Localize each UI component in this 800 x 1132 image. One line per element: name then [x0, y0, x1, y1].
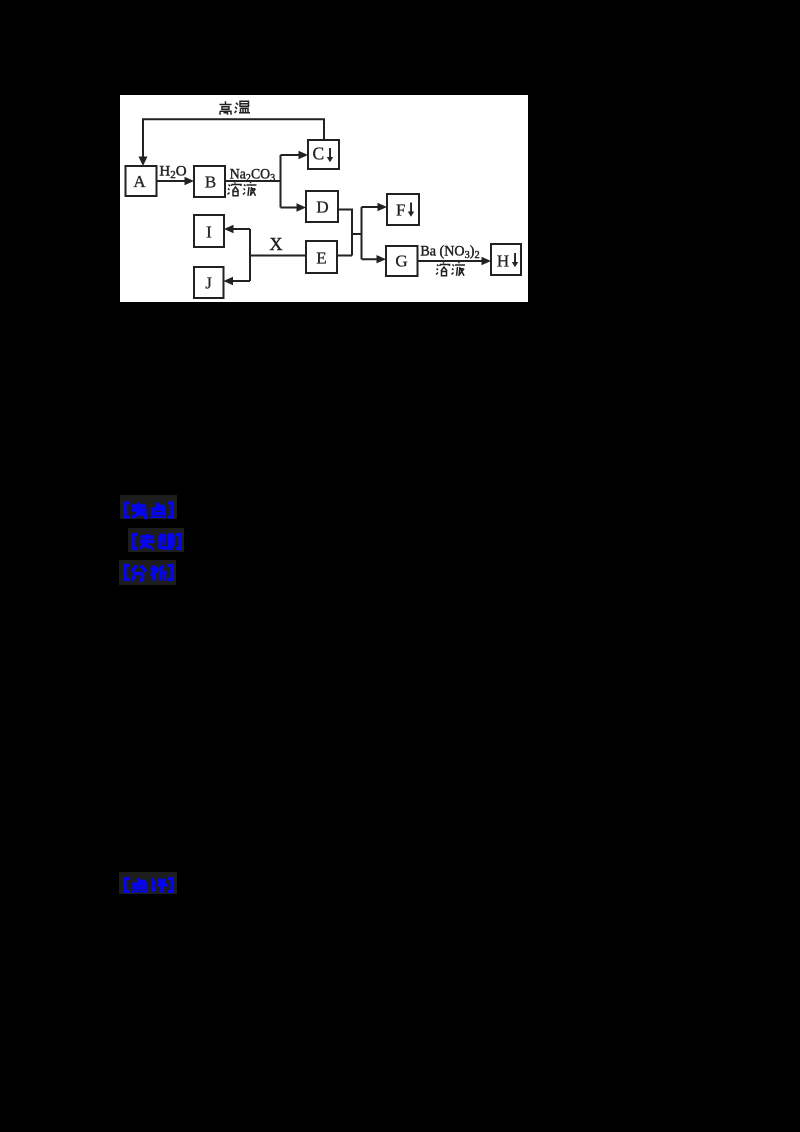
wire: branch to F — [362, 206, 381, 208]
wire: D right to bus2 — [338, 210, 352, 256]
svg-text:I: I — [206, 223, 212, 242]
char 题 — [159, 535, 174, 549]
bracket right — [168, 503, 172, 517]
svg-text:Ba (NO3)2: Ba (NO3)2 — [420, 243, 479, 261]
wire: A to B arrow shaft — [156, 180, 188, 182]
box I — [194, 215, 224, 247]
wire: G to H arrow shaft — [418, 260, 485, 262]
arrowhead into D (right) — [297, 203, 307, 211]
char 点 — [152, 503, 165, 519]
down arrow after C — [327, 148, 333, 162]
wire: bus4 vertical I/J split — [249, 229, 251, 281]
diagram: chemistry flowchart image — [120, 95, 528, 302]
char 点 — [133, 878, 146, 893]
bracket right — [176, 535, 180, 549]
down arrow after H — [512, 253, 518, 267]
box H — [491, 244, 521, 275]
arrowhead into H (right) — [482, 257, 492, 265]
bracket left — [125, 879, 129, 892]
bracket left — [125, 566, 129, 580]
svg-text:X: X — [270, 234, 283, 254]
arrowhead into C (right) — [299, 151, 309, 159]
svg-text:J: J — [205, 274, 212, 293]
box C — [308, 140, 339, 169]
label 溶液 under Ba(NO3)2 (hand-drawn) — [436, 262, 465, 276]
blue label 【考点】 — [120, 495, 177, 519]
wire: branch to D — [281, 207, 300, 209]
bracket right — [168, 879, 172, 892]
char 评 — [151, 879, 167, 893]
char 分 — [132, 566, 147, 581]
wire: feedback loop C to A (高温) — [143, 119, 324, 158]
svg-text:H: H — [497, 252, 509, 271]
blue label 【分析】 — [119, 560, 176, 585]
arrowhead into B (right) — [185, 177, 195, 185]
wire: bus3 vertical F/G split — [361, 207, 363, 259]
box D — [306, 191, 338, 222]
svg-text:B: B — [205, 173, 216, 192]
wire: branch to I — [231, 228, 250, 230]
arrowhead into F (right) — [378, 203, 388, 211]
svg-text:G: G — [395, 252, 407, 271]
svg-text:A: A — [133, 172, 146, 191]
bracket right — [168, 566, 172, 580]
box A — [126, 166, 157, 196]
svg-text:H2O: H2O — [159, 164, 186, 182]
arrowhead into G (right) — [377, 255, 387, 263]
box E — [306, 241, 337, 273]
box B — [194, 166, 225, 197]
bracket left — [133, 535, 137, 549]
arrowhead into I (left) — [224, 225, 234, 233]
char 考 — [131, 503, 148, 518]
wire: branch to J — [231, 280, 251, 282]
label 溶液 under Na2CO3 (hand-drawn) — [228, 182, 257, 196]
svg-text:F: F — [396, 201, 405, 220]
wire: branch to G — [362, 258, 380, 260]
bracket left — [125, 503, 129, 517]
char 析 — [151, 565, 167, 581]
arrowhead into A (down) — [139, 157, 148, 167]
down arrow after F — [408, 203, 414, 217]
blue label 【专题】 — [128, 528, 184, 552]
label 高温 (hand-drawn strokes) — [220, 101, 251, 115]
wire: bus2 to bus3 connector — [352, 233, 362, 235]
arrowhead into J (left) — [224, 277, 234, 285]
wire: E right to bus2 — [337, 255, 352, 257]
wire: E left to X bus — [250, 255, 306, 257]
box F — [387, 194, 419, 225]
svg-text:D: D — [316, 198, 328, 217]
box G — [386, 246, 418, 276]
wire: branch to C — [281, 154, 302, 156]
wire: bus1 vertical C/D split — [280, 155, 282, 208]
wire: B to split bus — [225, 180, 281, 182]
box J — [194, 267, 224, 298]
blue label 【点评】 — [119, 872, 177, 894]
svg-text:E: E — [316, 249, 326, 268]
svg-text:C: C — [312, 144, 324, 164]
svg-text:Na2CO3: Na2CO3 — [230, 166, 275, 184]
char 专 — [140, 534, 155, 550]
